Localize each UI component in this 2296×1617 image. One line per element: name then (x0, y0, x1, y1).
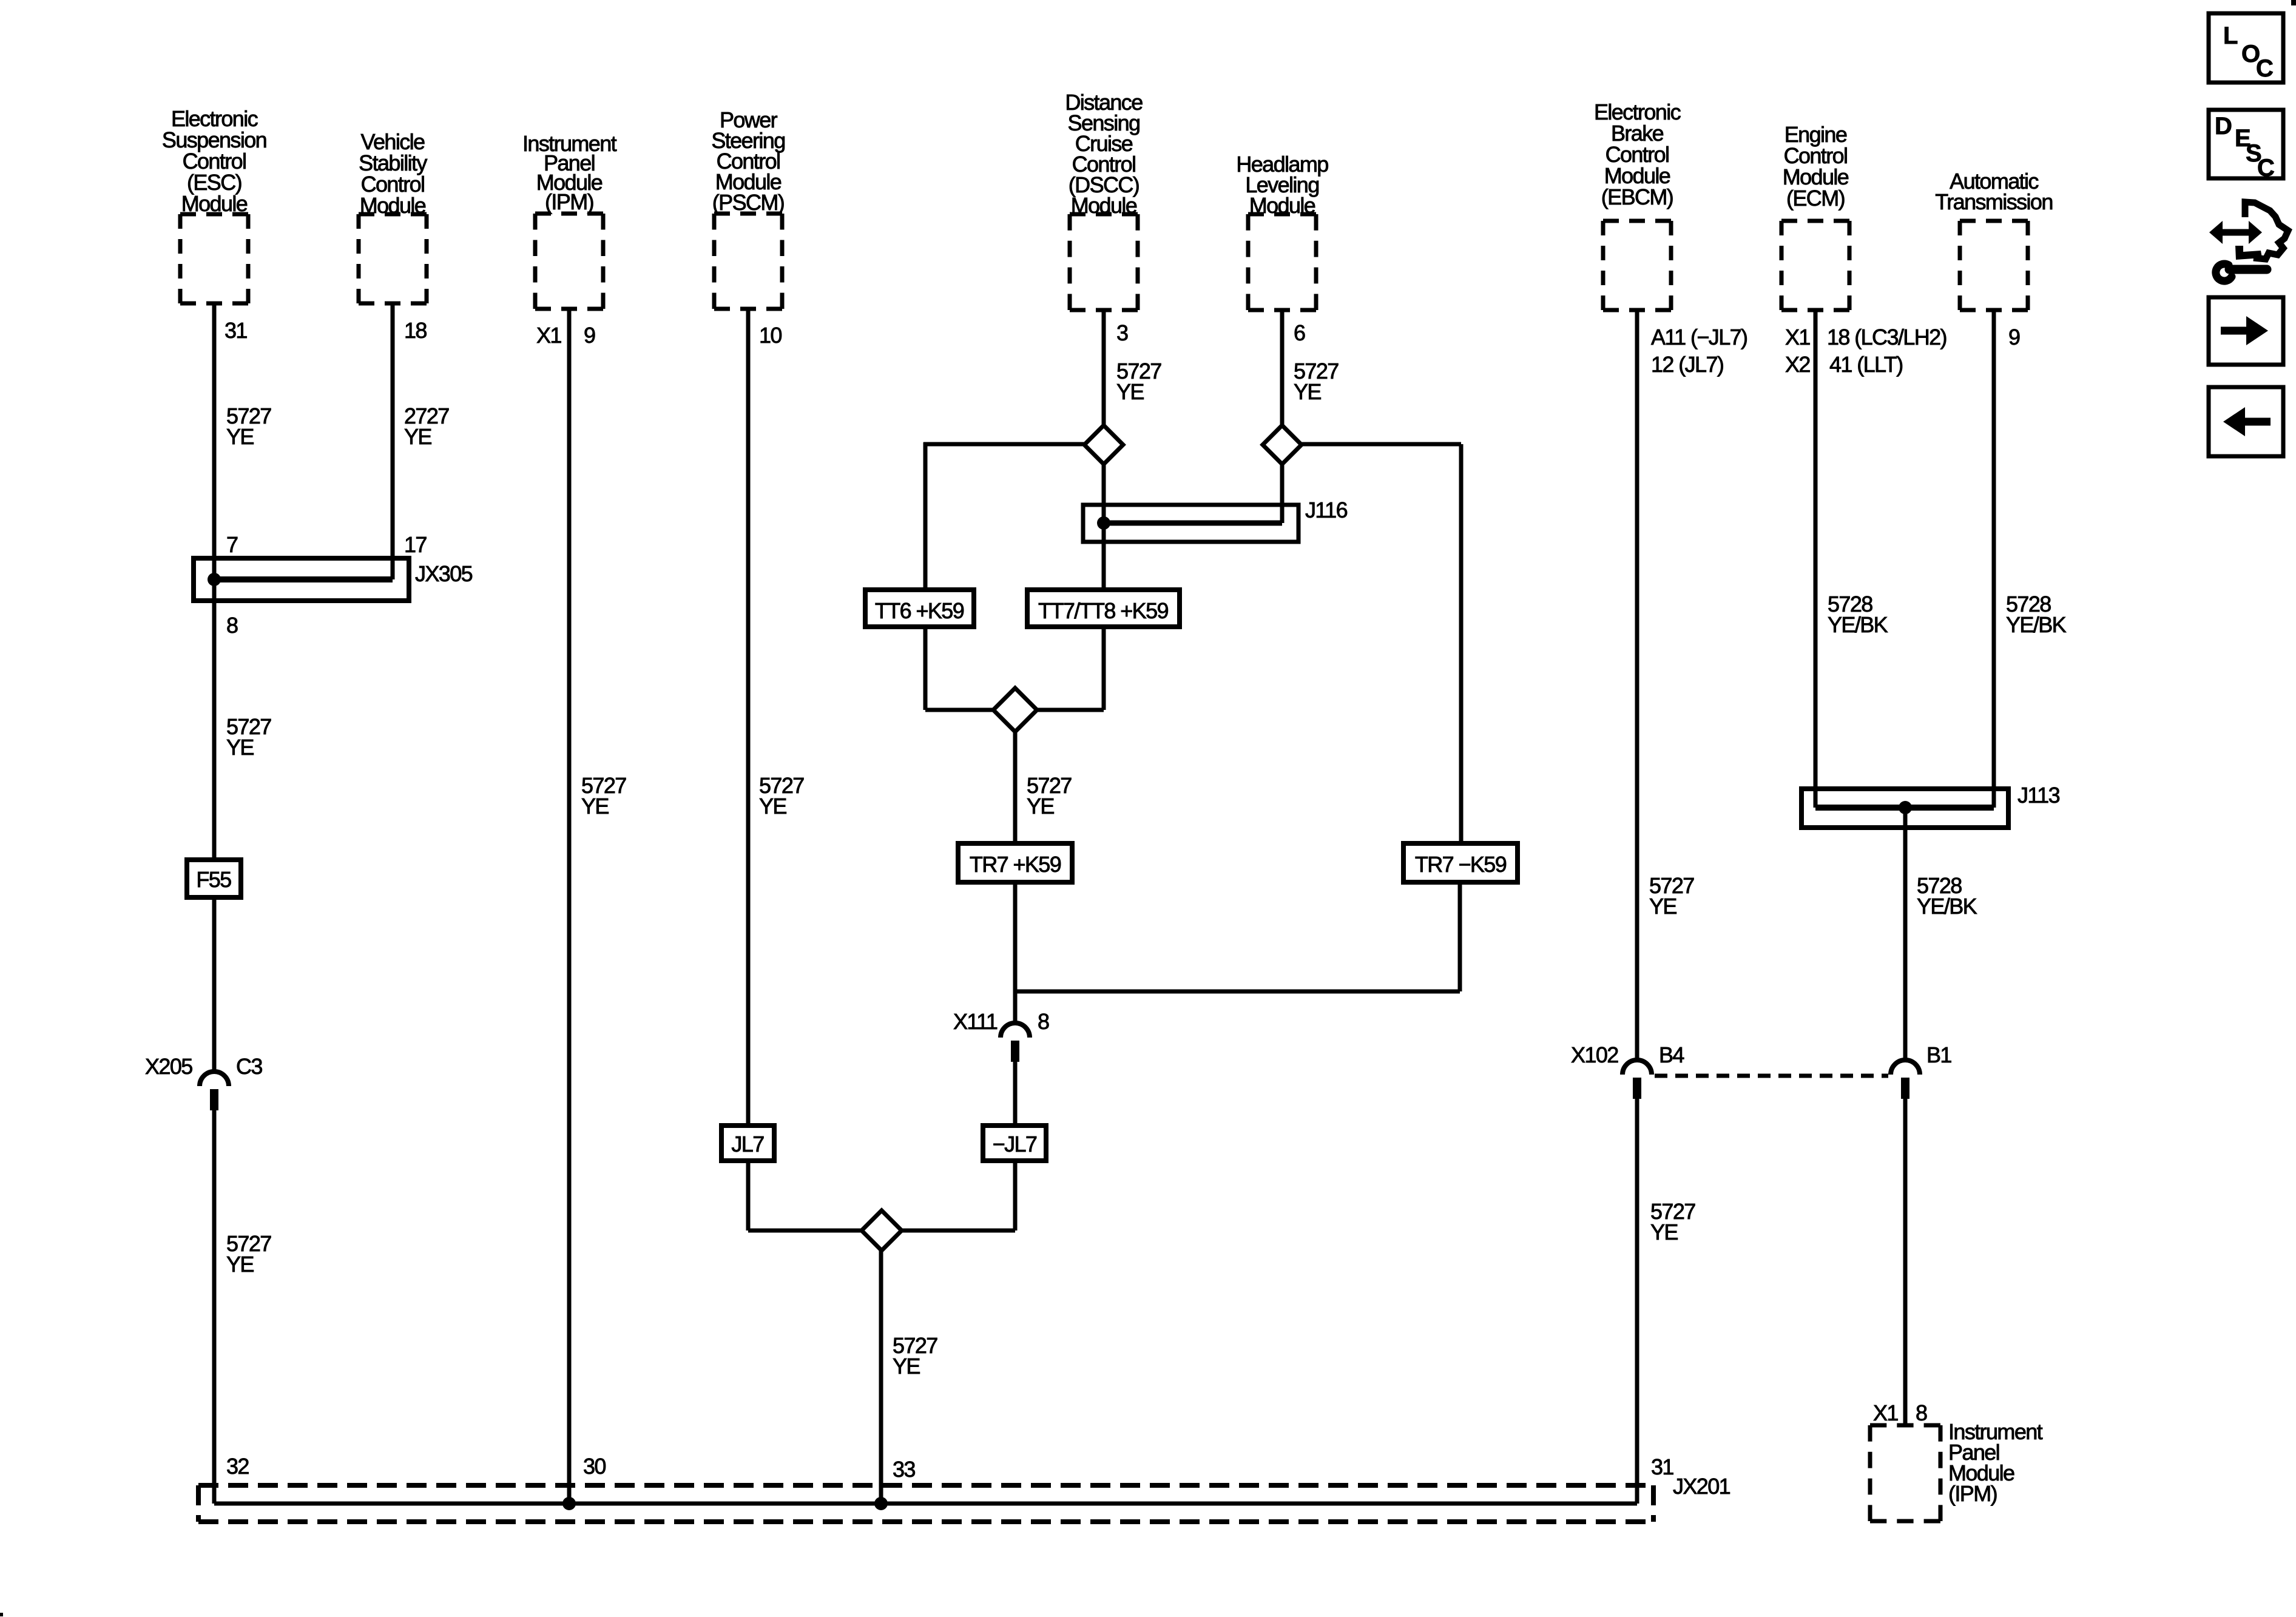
svg-text:YE: YE (226, 1252, 254, 1277)
svg-text:10: 10 (759, 323, 782, 348)
svg-text:X1: X1 (1873, 1400, 1898, 1425)
svg-text:33: 33 (893, 1457, 915, 1482)
svg-text:YE: YE (581, 794, 609, 819)
svg-text:J113: J113 (2017, 783, 2060, 808)
svg-text:Transmission: Transmission (1935, 189, 2053, 214)
svg-text:YE: YE (1294, 379, 1321, 404)
svg-text:X2: X2 (1785, 352, 1810, 377)
svg-text:9: 9 (584, 323, 595, 348)
svg-text:JX201: JX201 (1673, 1474, 1730, 1499)
svg-text:Module: Module (1071, 193, 1137, 218)
svg-text:YE: YE (1650, 1220, 1678, 1244)
svg-text:C3: C3 (236, 1054, 262, 1079)
svg-text:TT6 +K59: TT6 +K59 (875, 598, 964, 623)
svg-text:6: 6 (1294, 320, 1305, 345)
svg-text:8: 8 (226, 613, 238, 638)
svg-text:8: 8 (1038, 1009, 1049, 1034)
svg-text:18: 18 (404, 318, 427, 343)
svg-text:YE: YE (1649, 894, 1676, 919)
svg-text:Module: Module (1249, 193, 1315, 218)
svg-text:YE: YE (404, 424, 431, 449)
svg-text:YE/BK: YE/BK (2006, 612, 2067, 637)
svg-text:X1: X1 (1785, 325, 1810, 349)
svg-text:X102: X102 (1571, 1042, 1618, 1067)
svg-text:D: D (2215, 113, 2232, 140)
svg-text:L: L (2223, 22, 2238, 49)
svg-text:YE/BK: YE/BK (1917, 894, 1977, 919)
svg-text:Module: Module (181, 191, 248, 216)
svg-text:YE/BK: YE/BK (1828, 612, 1888, 637)
svg-text:(ECM): (ECM) (1786, 186, 1845, 211)
svg-text:TT7/TT8 +K59: TT7/TT8 +K59 (1038, 598, 1168, 623)
svg-text:30: 30 (583, 1454, 606, 1479)
svg-text:TR7 +K59: TR7 +K59 (970, 852, 1061, 877)
svg-text:32: 32 (226, 1454, 249, 1479)
svg-text:7: 7 (226, 532, 238, 557)
svg-text:JL7: JL7 (731, 1132, 764, 1156)
svg-text:(IPM): (IPM) (545, 189, 593, 214)
svg-text:17: 17 (404, 532, 427, 557)
svg-text:C: C (2257, 155, 2274, 181)
svg-text:12 (JL7): 12 (JL7) (1651, 352, 1723, 377)
svg-text:F55: F55 (196, 867, 231, 892)
svg-text:YE: YE (226, 735, 254, 760)
svg-text:(EBCM): (EBCM) (1601, 184, 1673, 209)
svg-text:−JL7: −JL7 (993, 1132, 1037, 1156)
svg-text:A11 (−JL7): A11 (−JL7) (1651, 325, 1747, 349)
svg-text:TR7 −K59: TR7 −K59 (1415, 852, 1507, 877)
svg-text:B4: B4 (1659, 1042, 1684, 1067)
svg-text:C: C (2256, 55, 2273, 82)
svg-text:31: 31 (1651, 1454, 1673, 1479)
svg-text:3: 3 (1116, 320, 1128, 345)
svg-text:YE: YE (1027, 794, 1054, 819)
svg-text:YE: YE (893, 1354, 920, 1379)
svg-text:JX305: JX305 (415, 561, 473, 586)
svg-text:8: 8 (1916, 1400, 1927, 1425)
svg-text:YE: YE (759, 794, 786, 819)
svg-text:J116: J116 (1305, 498, 1348, 522)
svg-text:X205: X205 (145, 1054, 192, 1079)
svg-text:YE: YE (226, 424, 254, 449)
svg-text:18 (LC3/LH2): 18 (LC3/LH2) (1827, 325, 1947, 349)
svg-text:X111: X111 (953, 1009, 998, 1034)
svg-text:YE: YE (1116, 379, 1144, 404)
svg-text:9: 9 (2008, 325, 2020, 349)
svg-text:X1: X1 (536, 323, 561, 348)
svg-text:(IPM): (IPM) (1948, 1481, 1997, 1506)
svg-text:31: 31 (225, 318, 247, 343)
svg-text:41 (LLT): 41 (LLT) (1829, 352, 1903, 377)
svg-text:Module: Module (360, 193, 426, 218)
svg-text:(PSCM): (PSCM) (712, 190, 784, 215)
svg-text:B1: B1 (1926, 1042, 1951, 1067)
